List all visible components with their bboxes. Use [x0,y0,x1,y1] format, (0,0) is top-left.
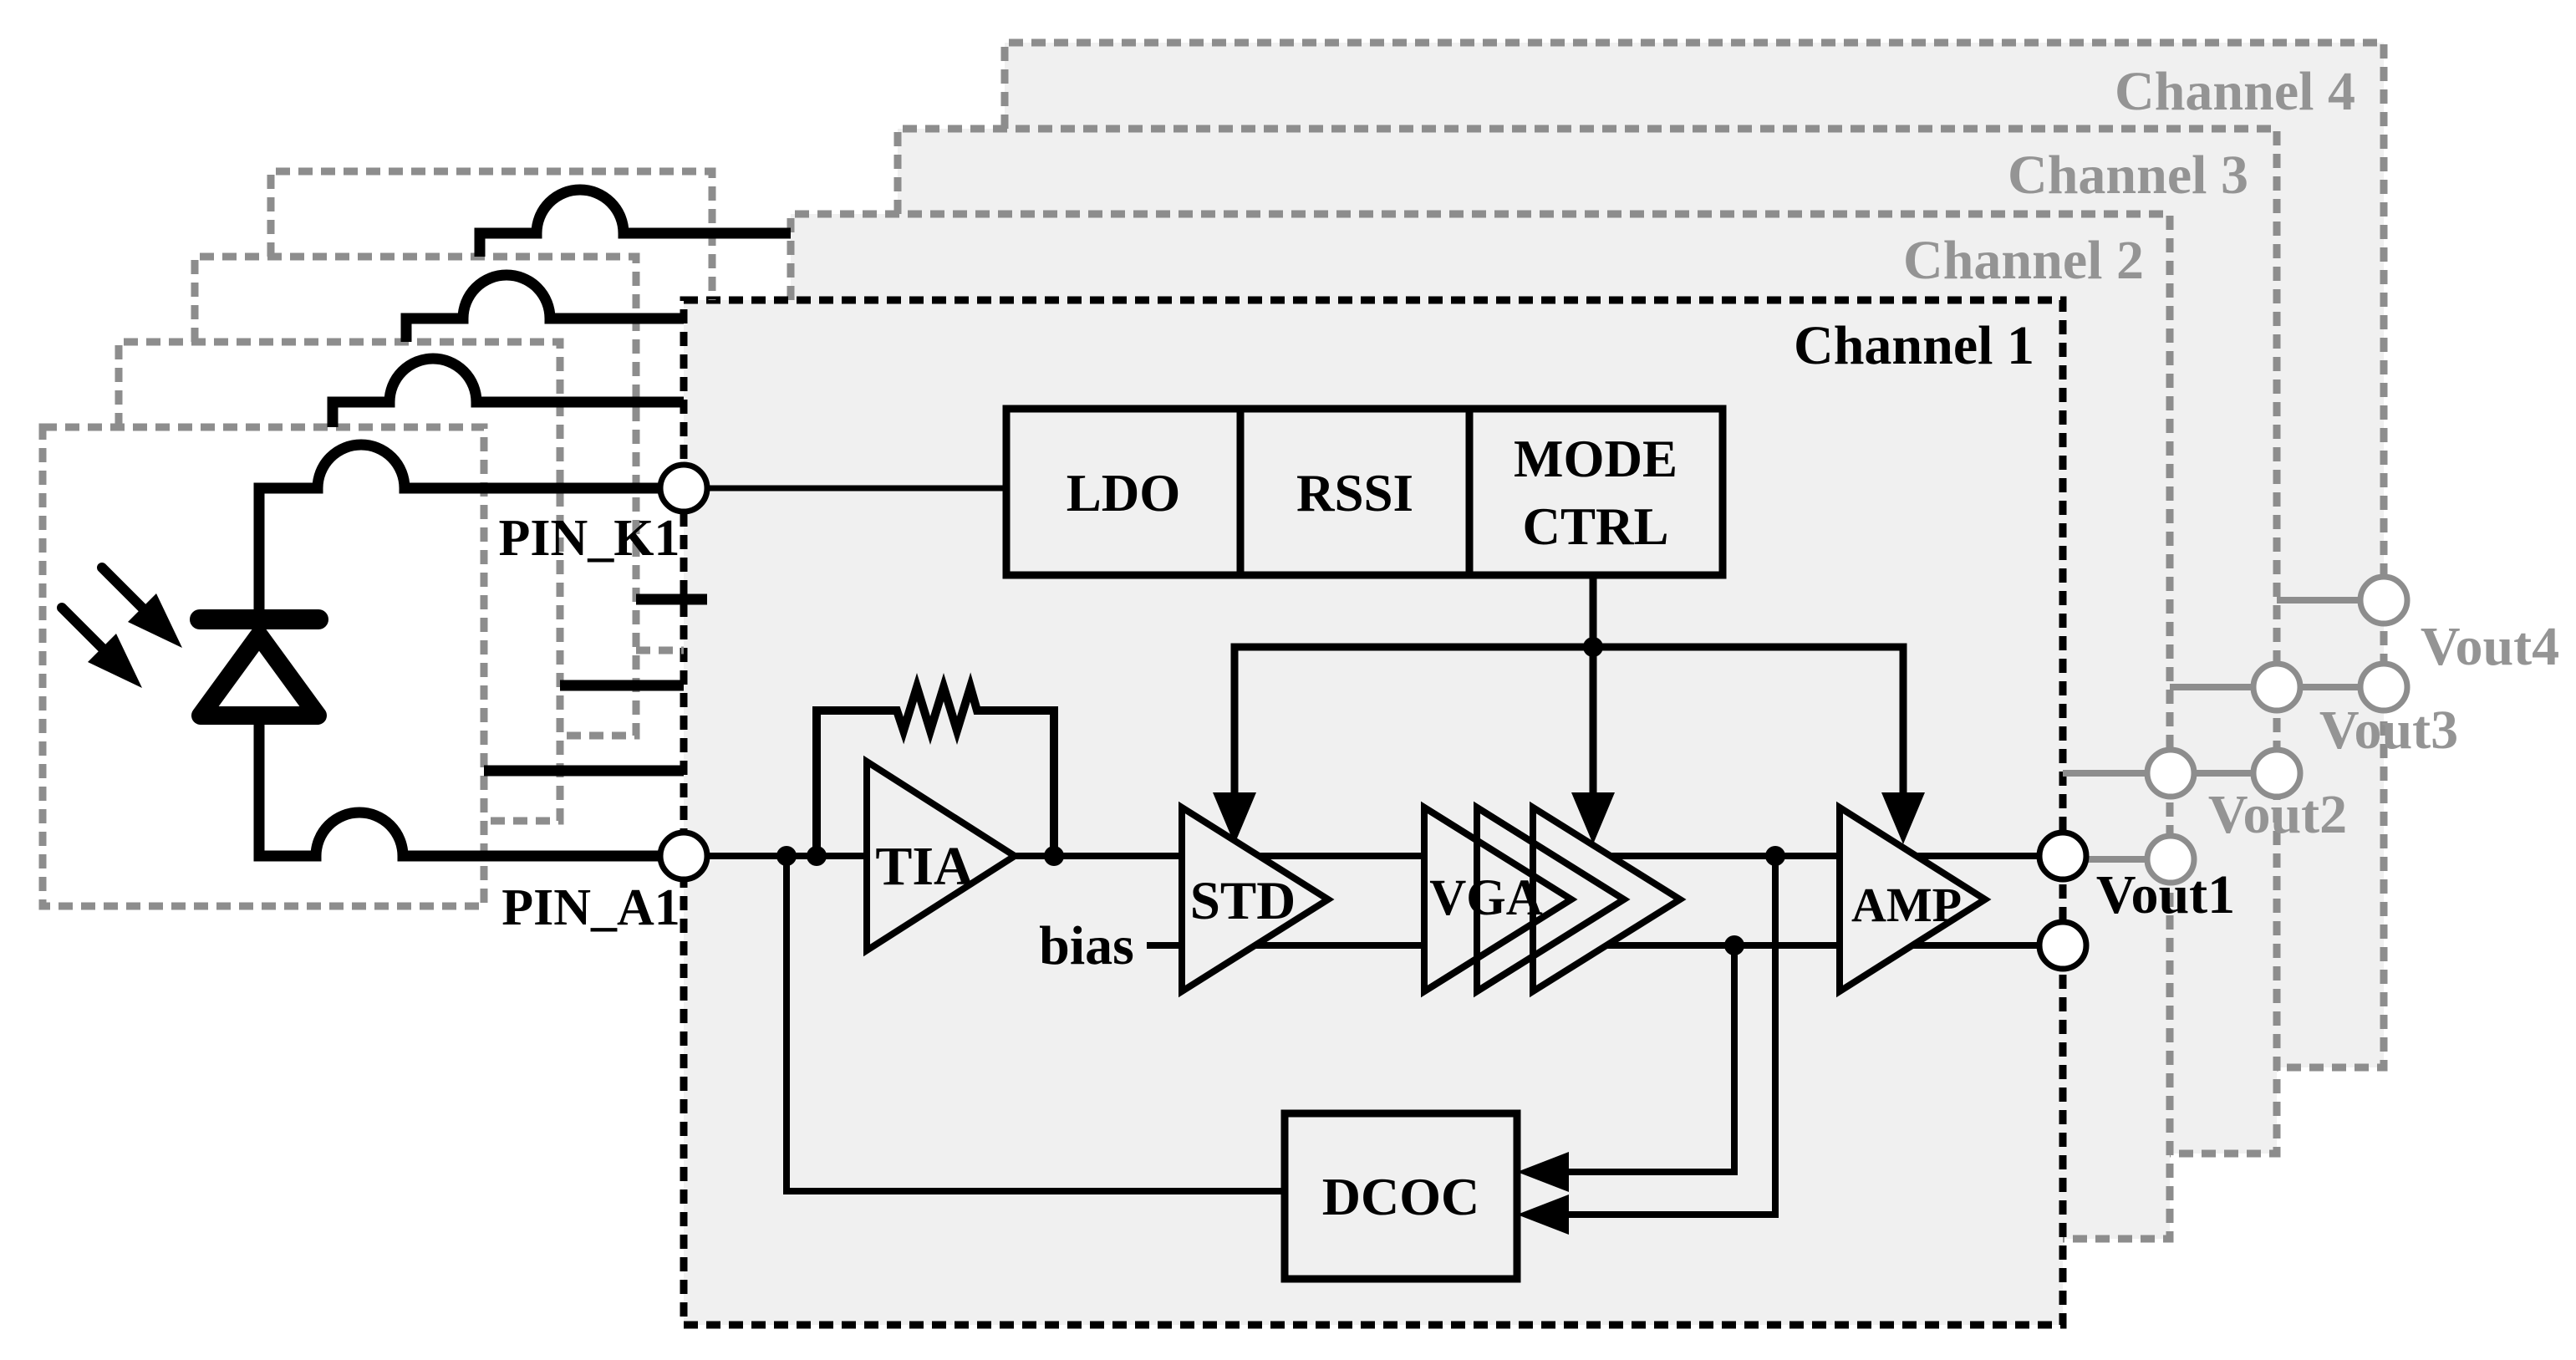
Vout2 pads gray [2147,750,2194,883]
photodiode D1 cathode bar [200,609,318,629]
DCOC input arrowhead 1 [1517,1152,1569,1192]
junction node dot before AMP on lower wire [1724,935,1744,955]
svg-text:MODE: MODE [1514,430,1677,488]
svg-text:RSSI: RSSI [1296,464,1413,522]
channel 4 box dashed border [1005,43,2384,1067]
TIA feedback loop wire with resistor RF zigzag [817,687,1054,856]
junction node dot on control wire [1583,637,1603,657]
main signal wire (PIN_A1 to Vout1+) [707,853,2042,859]
channel 3 box dashed border [898,129,2277,1154]
svg-text:Channel 2: Channel 2 [1903,230,2144,291]
photodiode package box PD3 dashed [195,257,636,736]
junction node dot before AMP on main wire [1765,846,1785,866]
bond wire inductor L_K3 [406,275,684,342]
channel 1 box dashed border [684,300,2063,1325]
svg-text:Vout3: Vout3 [2319,700,2458,761]
bond wire stub L_A2 [484,766,684,777]
svg-text:DCOC: DCOC [1322,1167,1479,1226]
amplifier TIA triangle [867,761,1015,950]
amplifier VGA triangle 1 [1424,807,1571,991]
pad circle PIN_K1 [660,465,707,512]
photodiode package box PD4 dashed [271,171,712,650]
Vout2 output wires gray [2063,773,2277,859]
svg-text:Channel 4: Channel 4 [2115,61,2355,122]
svg-text:STD: STD [1190,871,1296,931]
amplifier STD triangle [1182,807,1328,991]
bond wire inductor L_K2 [333,359,684,427]
junction node dot at input 2 [807,846,827,866]
wire PIN_K1 to LDO [707,486,1006,492]
svg-text:AMP: AMP [1851,878,1962,932]
svg-text:PIN_K1: PIN_K1 [499,510,680,567]
bond wire inductor L_A1 [259,725,663,856]
amplifier VGA triangle 3 [1533,807,1680,991]
photodiode D1 triangle [201,635,318,716]
channel boxes shaded union fill [684,43,2384,1325]
svg-text:Channel 1: Channel 1 [1794,315,2034,376]
amplifier VGA triangle 1 outline overlay [1424,807,1571,991]
svg-text:PIN_A1: PIN_A1 [501,879,680,936]
DCOC block [1285,1113,1517,1279]
svg-text:bias: bias [1039,915,1134,976]
pad circle Vout1 plus [2039,833,2086,879]
bond wire inductor L_K4 [480,190,791,257]
bond wire inductor L_K1 [259,445,663,612]
amplifier VGA triangle 2 [1477,807,1624,991]
svg-text:Vout1: Vout1 [2096,864,2235,925]
svg-text:Vout4: Vout4 [2421,616,2559,677]
Vout3 output wires gray [2170,684,2384,690]
photodiode package box PD2 dashed [119,342,560,821]
Vout4 output wire gray [2277,597,2384,604]
svg-text:CTRL: CTRL [1522,497,1668,556]
lower signal wire (bias to Vout1-) [1147,942,2042,949]
pad circle Vout1 minus [2039,922,2086,969]
svg-text:Channel 3: Channel 3 [2008,145,2248,206]
light arrow 1 into photodiode [102,568,182,648]
bond wire stub L_A4 [636,594,707,605]
junction node dot at TIA output [1044,846,1064,866]
pad circle PIN_A1 [660,833,707,879]
svg-text:VGA: VGA [1429,870,1543,926]
DCOC input wire 2 from main line [1569,856,1775,1215]
amplifier AMP triangle [1840,807,1985,991]
photodiode package box PD1 dashed [43,427,484,906]
svg-text:LDO: LDO [1067,464,1181,522]
Vout4 pads gray [2360,577,2407,711]
junction node dot at input 1 [776,846,797,866]
channel 2 box dashed border [791,214,2170,1239]
svg-text:TIA: TIA [875,836,974,897]
bond wire stub L_A3 [560,680,684,691]
control arrowhead to STD [1213,792,1256,844]
Vout3 pads gray [2253,664,2300,797]
svg-text:Vout2: Vout2 [2208,784,2347,845]
DCOC input wire 1 from lower line [1569,945,1734,1172]
control arrowhead to AMP [1881,792,1925,844]
LDO RSSI MODE CTRL block [1006,409,1723,575]
light arrow 2 into photodiode [62,608,142,688]
amplifier VGA triangle 2 outline overlay [1477,807,1624,991]
DCOC feedback wire from input node [787,856,1285,1191]
DCOC input arrowhead 2 [1517,1194,1569,1235]
MODE CTRL control wire [1235,575,1903,792]
control arrowhead to VGA [1571,792,1615,844]
